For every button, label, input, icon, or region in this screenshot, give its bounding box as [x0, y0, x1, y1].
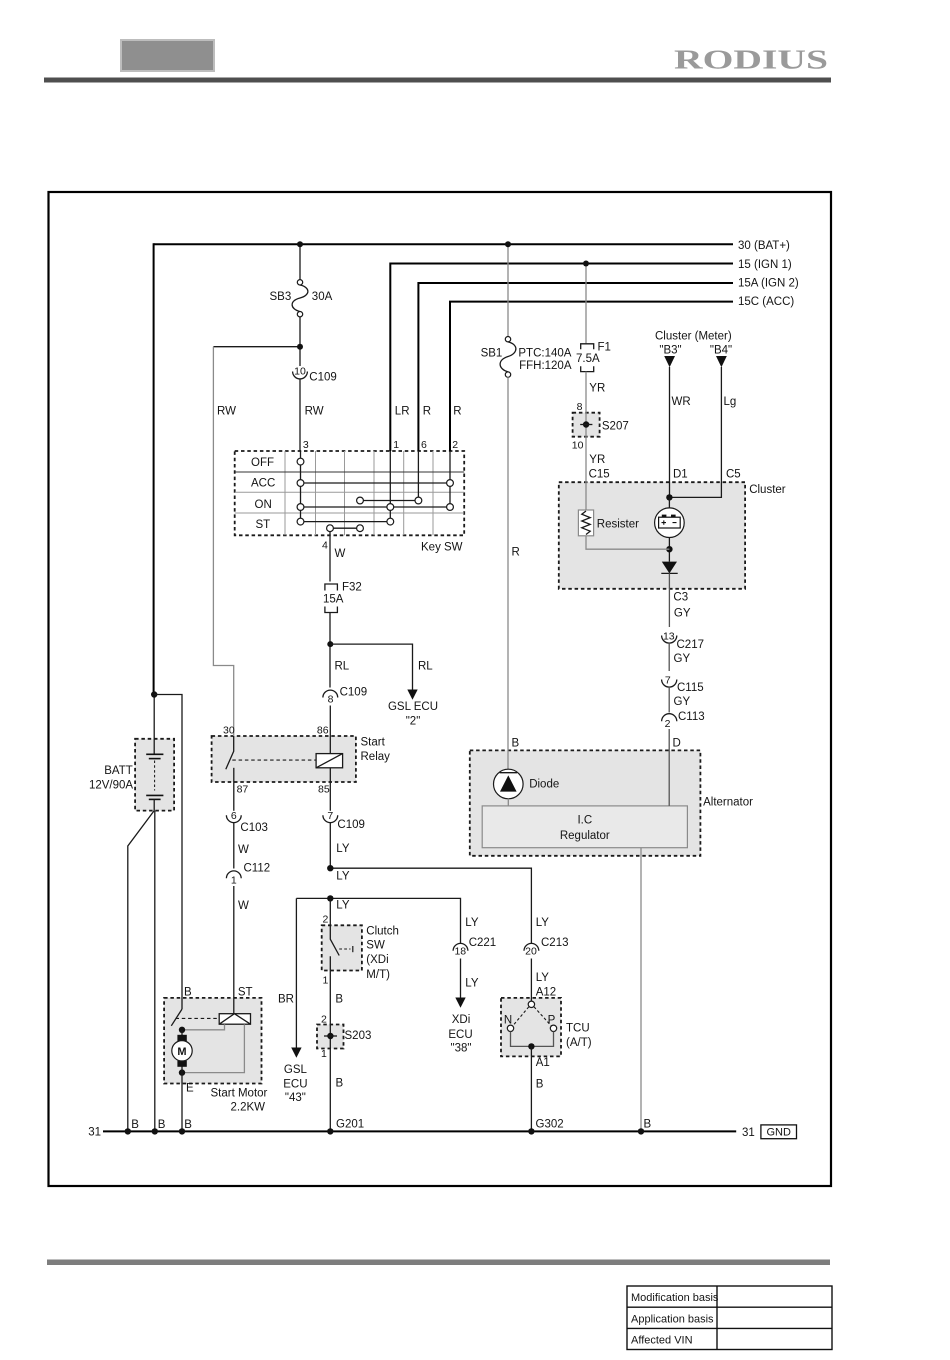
- svg-text:15C (ACC): 15C (ACC): [738, 296, 794, 308]
- svg-text:SW: SW: [366, 940, 385, 952]
- svg-text:S203: S203: [345, 1030, 372, 1042]
- svg-text:13: 13: [663, 630, 675, 642]
- svg-text:LY: LY: [536, 972, 550, 984]
- svg-text:C109: C109: [337, 819, 365, 831]
- svg-text:BATT: BATT: [104, 765, 133, 777]
- svg-text:18: 18: [454, 946, 466, 958]
- svg-text:LY: LY: [336, 900, 350, 912]
- svg-text:RW: RW: [305, 406, 324, 418]
- svg-text:C221: C221: [469, 937, 497, 949]
- svg-text:BR: BR: [278, 994, 294, 1006]
- svg-text:3: 3: [303, 439, 309, 451]
- svg-text:12V/90A: 12V/90A: [89, 780, 133, 792]
- svg-text:85: 85: [318, 784, 330, 796]
- svg-text:B: B: [184, 987, 192, 999]
- svg-text:LR: LR: [395, 406, 410, 418]
- svg-text:FFH:120A: FFH:120A: [519, 360, 572, 372]
- svg-text:8: 8: [328, 694, 334, 706]
- svg-text:C115: C115: [677, 682, 704, 694]
- svg-text:Clutch: Clutch: [366, 926, 399, 938]
- svg-text:PTC:140A: PTC:140A: [518, 348, 571, 360]
- svg-text:30: 30: [223, 725, 235, 737]
- svg-text:LY: LY: [336, 843, 350, 855]
- svg-text:Start: Start: [361, 737, 386, 749]
- svg-text:30A: 30A: [312, 291, 333, 303]
- svg-text:2: 2: [321, 1014, 327, 1026]
- svg-text:WR: WR: [672, 396, 691, 408]
- svg-text:Alternator: Alternator: [703, 797, 753, 809]
- svg-text:C112: C112: [244, 863, 271, 875]
- svg-text:B: B: [512, 738, 520, 750]
- svg-text:P: P: [548, 1015, 556, 1027]
- svg-text:Start Motor: Start Motor: [211, 1088, 268, 1100]
- svg-text:LY: LY: [465, 917, 479, 929]
- svg-text:B: B: [644, 1119, 652, 1131]
- svg-text:(A/T): (A/T): [566, 1037, 592, 1049]
- svg-text:10: 10: [294, 366, 306, 378]
- svg-text:B: B: [158, 1119, 166, 1131]
- svg-text:A12: A12: [536, 987, 556, 999]
- svg-text:Cluster (Meter): Cluster (Meter): [655, 331, 732, 343]
- svg-text:RODIUS: RODIUS: [674, 45, 828, 75]
- svg-text:C109: C109: [309, 372, 337, 384]
- svg-text:ACC: ACC: [251, 478, 275, 490]
- svg-text:A1: A1: [536, 1057, 550, 1069]
- svg-text:"38": "38": [451, 1043, 472, 1055]
- svg-text:LY: LY: [465, 978, 479, 990]
- svg-text:Application basis: Application basis: [631, 1313, 714, 1325]
- svg-text:31: 31: [88, 1127, 101, 1139]
- svg-text:1: 1: [393, 439, 399, 451]
- svg-text:2.2KW: 2.2KW: [231, 1102, 266, 1114]
- svg-text:F32: F32: [342, 582, 362, 594]
- svg-text:Cluster: Cluster: [749, 484, 786, 496]
- svg-text:B: B: [336, 1078, 344, 1090]
- svg-text:C15: C15: [589, 469, 610, 481]
- svg-text:7: 7: [327, 810, 333, 822]
- svg-text:W: W: [335, 548, 346, 560]
- svg-text:6: 6: [421, 439, 427, 451]
- svg-text:W: W: [238, 844, 249, 856]
- svg-text:ECU: ECU: [448, 1029, 472, 1041]
- svg-text:B: B: [335, 994, 343, 1006]
- svg-text:4: 4: [322, 540, 328, 552]
- svg-text:"B4": "B4": [710, 345, 732, 357]
- svg-text:GY: GY: [674, 608, 691, 620]
- svg-text:RL: RL: [335, 661, 350, 673]
- svg-text:Lg: Lg: [724, 396, 737, 408]
- svg-text:Regulator: Regulator: [560, 830, 610, 842]
- svg-text:31: 31: [742, 1127, 755, 1139]
- svg-text:7.5A: 7.5A: [576, 353, 600, 365]
- svg-text:LY: LY: [536, 917, 550, 929]
- svg-text:Resister: Resister: [597, 519, 639, 531]
- svg-text:G302: G302: [536, 1119, 564, 1131]
- svg-text:Key SW: Key SW: [421, 542, 463, 554]
- svg-text:C217: C217: [677, 639, 705, 651]
- svg-text:ON: ON: [255, 499, 272, 511]
- svg-text:YR: YR: [589, 454, 605, 466]
- svg-text:ST: ST: [238, 987, 253, 999]
- svg-text:C3: C3: [673, 591, 688, 603]
- svg-text:86: 86: [317, 725, 329, 737]
- svg-text:N: N: [504, 1015, 512, 1027]
- svg-text:E: E: [186, 1083, 194, 1095]
- svg-text:RW: RW: [217, 406, 236, 418]
- svg-text:15A (IGN 2): 15A (IGN 2): [738, 278, 799, 290]
- svg-text:F1: F1: [598, 342, 611, 354]
- svg-text:M: M: [177, 1046, 186, 1058]
- svg-text:XDi: XDi: [452, 1014, 471, 1026]
- svg-text:15A: 15A: [323, 594, 344, 606]
- svg-text:S207: S207: [602, 421, 629, 433]
- svg-text:SB3: SB3: [270, 291, 292, 303]
- svg-text:I.C: I.C: [577, 815, 592, 827]
- svg-text:B: B: [131, 1119, 139, 1131]
- svg-text:RL: RL: [418, 661, 433, 673]
- svg-text:2: 2: [452, 439, 458, 451]
- svg-text:"2": "2": [406, 716, 421, 728]
- svg-text:D1: D1: [673, 469, 688, 481]
- svg-text:D: D: [673, 738, 681, 750]
- svg-text:Relay: Relay: [361, 751, 391, 763]
- svg-text:1: 1: [321, 1048, 327, 1060]
- svg-text:R: R: [423, 406, 431, 418]
- svg-text:LY: LY: [336, 871, 350, 883]
- svg-text:R: R: [453, 406, 461, 418]
- svg-text:B: B: [536, 1079, 544, 1091]
- svg-text:20: 20: [525, 946, 537, 958]
- svg-text:C113: C113: [678, 711, 705, 723]
- svg-text:W: W: [238, 900, 249, 912]
- svg-text:C213: C213: [541, 937, 569, 949]
- svg-text:"B3": "B3": [659, 345, 681, 357]
- svg-text:2: 2: [665, 718, 671, 730]
- svg-text:B: B: [184, 1119, 192, 1131]
- svg-text:30 (BAT+): 30 (BAT+): [738, 240, 790, 252]
- svg-text:Modification basis: Modification basis: [631, 1292, 719, 1304]
- svg-text:GSL: GSL: [284, 1064, 308, 1076]
- svg-text:C103: C103: [240, 822, 268, 834]
- svg-text:GND: GND: [766, 1127, 791, 1139]
- svg-text:SB1: SB1: [481, 348, 503, 360]
- svg-text:15 (IGN 1): 15 (IGN 1): [738, 259, 792, 271]
- svg-text:M/T): M/T): [366, 969, 390, 981]
- svg-text:1: 1: [323, 975, 329, 987]
- svg-text:OFF: OFF: [251, 457, 274, 469]
- svg-text:7: 7: [665, 674, 671, 686]
- svg-text:TCU: TCU: [566, 1023, 590, 1035]
- svg-text:Affected VIN: Affected VIN: [631, 1335, 693, 1347]
- svg-text:ST: ST: [256, 519, 271, 531]
- svg-text:8: 8: [577, 401, 583, 413]
- svg-text:10: 10: [572, 440, 584, 452]
- svg-text:2: 2: [323, 914, 329, 926]
- svg-text:R: R: [512, 547, 520, 559]
- svg-text:87: 87: [237, 784, 249, 796]
- svg-text:ECU: ECU: [283, 1079, 307, 1091]
- svg-text:6: 6: [231, 810, 237, 822]
- svg-text:Diode: Diode: [529, 779, 559, 791]
- svg-text:YR: YR: [589, 383, 605, 395]
- svg-text:C5: C5: [726, 469, 741, 481]
- svg-text:G201: G201: [336, 1119, 364, 1131]
- svg-text:C109: C109: [340, 687, 368, 699]
- svg-text:1: 1: [231, 874, 237, 886]
- svg-text:"43": "43": [285, 1092, 306, 1104]
- svg-text:GY: GY: [674, 696, 691, 708]
- svg-text:(XDi: (XDi: [366, 954, 388, 966]
- svg-text:GSL ECU: GSL ECU: [388, 701, 438, 713]
- svg-text:GY: GY: [674, 653, 691, 665]
